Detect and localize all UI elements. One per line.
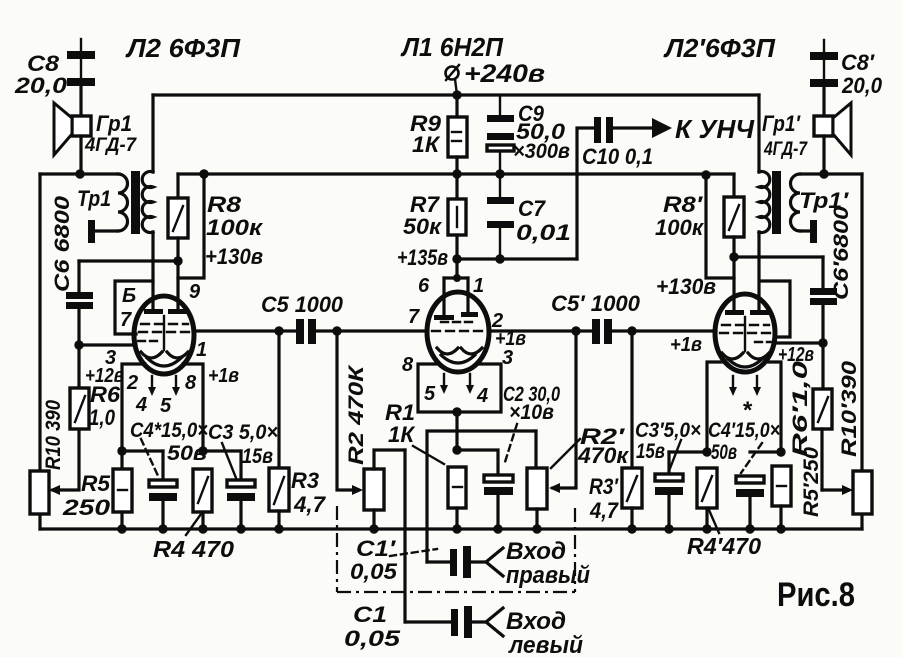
svg-text:С4*15,0×: С4*15,0× — [130, 419, 208, 442]
svg-text:1: 1 — [196, 339, 207, 361]
tube L1 cathode arcs — [437, 348, 482, 363]
node R5 top pin2 — [117, 446, 126, 455]
arrow to AF amp K UNCH — [652, 118, 672, 138]
resistor R4 470 — [193, 469, 212, 529]
capacitor C6' 6800 — [810, 257, 837, 343]
R10' wiper arrowhead — [842, 485, 853, 495]
resistor R1 1K — [448, 467, 466, 529]
svg-text:R3′: R3′ — [589, 474, 619, 499]
tube L2 cathode arcs — [141, 352, 188, 366]
svg-text:С3 5,0×: С3 5,0× — [208, 421, 278, 444]
wire R6' to R10' wiper — [822, 488, 848, 491]
svg-text:4: 4 — [476, 385, 488, 407]
wire right drop from rail to transformer Tr1' — [757, 95, 760, 172]
svg-text:R3: R3 — [291, 468, 319, 493]
wire left drop from rail to transformer Tr1 primary — [151, 95, 154, 172]
svg-text:R8: R8 — [207, 192, 242, 217]
svg-text:20,0: 20,0 — [841, 73, 883, 98]
capacitor C8' — [810, 40, 838, 116]
svg-text:1К: 1К — [388, 422, 415, 447]
tube L2 socket box / pin2 pin8 leads — [122, 364, 203, 451]
svg-text:+1в: +1в — [670, 334, 702, 356]
svg-text:2: 2 — [126, 372, 138, 394]
svg-text:15в: 15в — [242, 445, 273, 468]
svg-text:8: 8 — [402, 354, 414, 376]
node cathode L2' pin3 — [818, 338, 827, 347]
node C9 bottom — [495, 169, 504, 178]
node +240v — [452, 90, 461, 99]
transformer Tr1 primary (inner) winding — [142, 172, 153, 233]
svg-text:R2 470К: R2 470К — [345, 363, 368, 465]
capacitor C5' 1000 — [592, 319, 716, 344]
leader C1' label — [390, 549, 437, 556]
svg-text:+1в: +1в — [208, 365, 239, 387]
capacitor C4' 15,0x50v — [736, 476, 764, 529]
svg-text:4ГД-7: 4ГД-7 — [84, 135, 137, 156]
node C7 bottom — [495, 254, 504, 263]
input jack pravyj — [486, 548, 503, 576]
svg-text:7: 7 — [408, 306, 420, 328]
resistor R3 4.7 — [269, 331, 289, 529]
svg-text:100к: 100к — [655, 215, 705, 240]
resistor R6' 1,0 — [813, 343, 832, 490]
wire R6 to R10 wiper — [53, 429, 79, 490]
wire Tr1 primary bottom to tube L2 anode — [151, 232, 154, 312]
wire R2' wiper to grid — [553, 331, 576, 488]
svg-text:0,05: 0,05 — [344, 626, 401, 651]
svg-text:С8′: С8′ — [841, 50, 876, 75]
svg-text:+130в: +130в — [656, 274, 716, 299]
resistor R10 390 — [30, 471, 49, 514]
resistor R9 1K — [448, 95, 467, 174]
transformer Tr1 secondary (outer) winding — [92, 174, 128, 231]
svg-text:1К: 1К — [412, 132, 441, 157]
node R5' top — [776, 447, 785, 456]
svg-text:+130в: +130в — [205, 244, 263, 269]
node cathode L2 pin3 — [74, 340, 83, 349]
R2 wiper arrowhead — [352, 485, 363, 495]
svg-text:15в: 15в — [636, 440, 665, 463]
leader C3' label — [669, 440, 681, 471]
svg-text:7: 7 — [120, 309, 132, 331]
svg-text:R6: R6 — [90, 382, 121, 407]
grid rail left channel y=331 — [194, 329, 298, 332]
capacitor C8 — [67, 39, 95, 116]
tube L1 socket box — [418, 364, 501, 412]
svg-text:20,0: 20,0 — [14, 73, 68, 98]
svg-text:R8′: R8′ — [663, 192, 704, 217]
tube L1 grids (dashed) — [432, 322, 487, 331]
wire +135v node — [457, 257, 577, 260]
wire pin3 to tube L2 — [79, 343, 136, 346]
capacitor C5 1000 — [296, 319, 427, 344]
ground rail junction nodes — [117, 524, 785, 533]
svg-text:С6′6800: С6′6800 — [830, 206, 853, 300]
svg-text:0,05: 0,05 — [350, 559, 398, 584]
svg-text:R10′390: R10′390 — [838, 361, 861, 457]
resistor R6 1,0 — [70, 345, 89, 429]
wire top supply rail +240v — [153, 93, 759, 96]
wire pin2 to C4 — [122, 449, 163, 452]
resistor R3' 4,7 — [622, 331, 642, 529]
tube L2' heater pins with arrows — [729, 376, 761, 396]
svg-text:8: 8 — [185, 372, 197, 394]
tube L1 heater pins with arrows — [440, 374, 474, 394]
leader R1 label — [413, 446, 444, 464]
leader R4 label — [186, 514, 201, 535]
tube L1 anode plates — [434, 312, 478, 320]
capacitor C1' 0,05 right input — [427, 546, 486, 578]
node R9 bottom — [452, 169, 461, 178]
node R4 top pin8 — [198, 446, 207, 455]
svg-text:+1в: +1в — [495, 328, 526, 350]
R2' wiper arrowhead — [549, 483, 560, 493]
wire cathode to R1/C2 — [455, 412, 458, 450]
wire left speaker rail y=174 — [40, 172, 119, 175]
wire far-left rail down — [38, 174, 41, 529]
node L1 anode bridge — [453, 274, 461, 282]
svg-text:Л1 6Н2П: Л1 6Н2П — [400, 32, 504, 62]
pin labels tube L1 — [402, 275, 513, 407]
transformer Tr1' core — [772, 171, 781, 234]
svg-text:250: 250 — [62, 495, 111, 520]
svg-text:6: 6 — [418, 275, 430, 297]
svg-text:+135в: +135в — [397, 245, 448, 270]
capacitor C4 15,0x50v — [149, 451, 177, 529]
svg-text:Вход: Вход — [506, 608, 566, 635]
leader C4 label — [141, 439, 159, 478]
wire +130v to C6' — [734, 255, 823, 258]
svg-text:50в: 50в — [167, 442, 207, 465]
tube L2' envelope — [715, 294, 775, 372]
wire screen rail y=174 — [178, 172, 734, 175]
wire C4' to R5' — [750, 450, 781, 453]
leader R2' label — [551, 439, 580, 468]
svg-text:С5′ 1000: С5′ 1000 — [551, 291, 641, 316]
node R4' top — [702, 447, 711, 456]
tube L2 heater pins with arrows — [148, 376, 180, 396]
svg-text:5: 5 — [424, 383, 436, 405]
tube L2' cathode arcs — [722, 353, 769, 367]
svg-text:470к: 470к — [577, 443, 630, 468]
capacitor C9 50,0 x300v — [487, 95, 514, 174]
wire screen tap g2' path — [760, 281, 790, 337]
wire pin8 to C3 — [203, 449, 241, 452]
svg-text:Л2 6Ф3П: Л2 6Ф3П — [125, 33, 241, 63]
transformer Tr1' primary (inner) winding — [759, 172, 770, 233]
svg-text:4,7: 4,7 — [589, 498, 620, 523]
svg-text:R10 390: R10 390 — [42, 400, 65, 470]
wire Tr1' winding bottom to tube L2' anode — [757, 232, 760, 312]
svg-text:R6′1,0: R6′1,0 — [789, 361, 812, 457]
svg-text:С5 1000: С5 1000 — [261, 292, 344, 317]
wire C1' input feed up to R2' — [427, 431, 536, 562]
resistor R7 50k — [448, 174, 466, 259]
node speaker/feedback junction — [75, 169, 84, 178]
node R8' bottom +130v — [729, 252, 738, 261]
node screen rail right tap — [701, 170, 710, 179]
resistor R4' 470 — [697, 468, 717, 529]
node before C5 — [274, 326, 283, 335]
svg-text:50в: 50в — [711, 441, 737, 464]
node after C5 — [332, 326, 341, 335]
svg-text:С1: С1 — [353, 602, 387, 627]
wire L1 anodes bridge — [444, 259, 468, 317]
wire rail tap down to anode pin9 — [178, 174, 204, 278]
node before C5' — [571, 326, 580, 335]
transformer Tr1' terminal stub — [810, 220, 817, 243]
svg-text:С10 0,1: С10 0,1 — [582, 144, 653, 169]
wire R1 to C2 — [457, 450, 498, 475]
svg-text:100к: 100к — [206, 215, 264, 240]
node L1 cathode box — [452, 407, 461, 416]
svg-text:Гр1′: Гр1′ — [762, 111, 801, 136]
tube L2' grids (dashed) — [720, 317, 774, 351]
svg-text:Б: Б — [122, 285, 136, 307]
leader C2 label — [505, 424, 517, 462]
resistor R5 250 — [113, 451, 132, 529]
potentiometer R2' 470k — [527, 431, 547, 529]
svg-text:4,7: 4,7 — [293, 492, 327, 517]
svg-text:С7: С7 — [518, 196, 547, 221]
leader C4' label — [741, 443, 762, 473]
tube L2 grids (dashed) — [138, 316, 193, 350]
capacitor C1 0,05 left input — [406, 606, 486, 638]
R10 wiper arrowhead — [49, 485, 60, 495]
svg-text:R4′470: R4′470 — [687, 533, 761, 559]
svg-text:×300в: ×300в — [513, 140, 570, 163]
speaker Gr1' — [814, 103, 851, 174]
supply node symbol O+240v — [446, 65, 460, 95]
transformer Tr1' secondary (outer) winding — [791, 174, 814, 231]
transformer Tr1 core — [131, 171, 140, 234]
svg-text:Гр1: Гр1 — [96, 111, 132, 136]
grid rail right channel y=331 — [489, 329, 594, 332]
leader C3 label — [222, 443, 236, 478]
svg-text:4: 4 — [135, 394, 147, 416]
svg-text:С6 6800: С6 6800 — [51, 196, 74, 292]
tube L1 envelope — [427, 292, 489, 372]
svg-text:Л2′6Ф3П: Л2′6Ф3П — [663, 33, 776, 63]
svg-text:5: 5 — [160, 395, 172, 417]
svg-text:R5: R5 — [81, 471, 111, 496]
input jack levyj — [486, 608, 503, 636]
resistor R8 100k — [168, 174, 188, 312]
svg-text:левый: левый — [508, 632, 583, 657]
wire right rail down — [860, 174, 863, 529]
svg-text:R5′250: R5′250 — [800, 447, 823, 517]
svg-text:0,01: 0,01 — [516, 220, 571, 245]
node R7 bottom +135v — [452, 254, 461, 263]
svg-text:правый: правый — [506, 562, 590, 589]
svg-text:К УНЧ: К УНЧ — [675, 114, 755, 144]
svg-text:1,0: 1,0 — [89, 405, 116, 430]
node R1 top — [452, 445, 461, 454]
svg-text:С3′5,0×: С3′5,0× — [635, 419, 701, 442]
svg-text:3: 3 — [502, 347, 513, 369]
wire C3' to R4' — [669, 450, 707, 453]
svg-text:R4 470: R4 470 — [153, 536, 234, 562]
dash-dot shield box — [337, 506, 575, 592]
transformer Tr1 terminal stub — [88, 220, 95, 243]
capacitor C2 30,0 x10v — [484, 475, 513, 529]
tube L2' socket box leads — [707, 362, 781, 452]
capacitor C10 0,1 — [594, 117, 652, 143]
potentiometer R10' 390 — [853, 471, 872, 514]
resistor R5' 250 — [772, 466, 791, 529]
svg-text:×10в: ×10в — [509, 401, 554, 424]
node after C5' — [627, 326, 636, 335]
svg-text:1: 1 — [473, 275, 484, 297]
tube L2 envelope — [134, 296, 194, 374]
svg-text:Тр1: Тр1 — [77, 186, 111, 211]
svg-text:50к: 50к — [403, 214, 443, 239]
capacitor C7 0,01 — [487, 174, 514, 259]
wire bottom ground rail — [40, 527, 862, 530]
leader R4' label — [709, 510, 719, 533]
svg-text:9: 9 — [189, 281, 201, 303]
wire screen tap g2 path — [115, 281, 153, 334]
capacitor C3 5,0x15v — [227, 451, 255, 529]
capacitor C3' 5,0x15v — [655, 452, 683, 529]
node speaker right junction — [819, 169, 828, 178]
wire pin3' to tube L2' — [775, 341, 823, 344]
capacitor C6 6800 — [66, 261, 93, 345]
wire rail tap down to anode path right — [706, 175, 734, 278]
wire C1 input feed up to R2 — [403, 450, 406, 622]
wire +130v to C6 — [79, 259, 174, 262]
svg-text:Вход: Вход — [506, 538, 566, 565]
potentiometer R2 470K — [364, 450, 405, 529]
svg-text:+240в: +240в — [464, 60, 545, 88]
tube L2 anode plates — [144, 309, 187, 314]
resistor R8' 100k — [724, 175, 744, 312]
wire R2 wiper to grid — [337, 331, 358, 490]
pin labels tube L2 — [105, 281, 207, 417]
node screen rail tap — [199, 169, 208, 178]
node R8 bottom +130v — [173, 256, 182, 265]
svg-text:С1′: С1′ — [356, 536, 397, 561]
speaker Gr1 — [54, 103, 91, 174]
svg-text:4ГД-7: 4ГД-7 — [763, 139, 808, 160]
svg-text:Рис.8: Рис.8 — [777, 576, 855, 614]
tube L2' anode plates — [725, 310, 769, 315]
wire C10 takeoff — [577, 128, 595, 259]
